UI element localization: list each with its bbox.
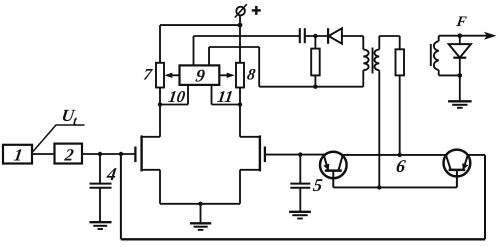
- label 10: [167, 87, 186, 106]
- lead 11 (block9 to R8 bottom): [212, 85, 241, 105]
- transistor VT5: [320, 152, 347, 188]
- node cap-diode: [313, 34, 317, 38]
- label 4: [105, 164, 118, 184]
- diode across coil: [449, 36, 471, 76]
- svg-text:11: 11: [216, 87, 234, 106]
- capacitor C5: [290, 155, 310, 211]
- wire FET4 source down: [239, 170, 241, 204]
- output coil: [434, 36, 460, 76]
- wire base link VT5-VT6: [333, 186, 457, 188]
- FET VT3 (left): [135, 135, 160, 171]
- lead 10 (block9 to R7 bottom): [160, 85, 188, 105]
- svg-text:1: 1: [13, 146, 24, 165]
- wire block1 to block2: [32, 153, 55, 155]
- svg-text:10: 10: [167, 87, 186, 106]
- wire FET4 gate to VT5: [265, 154, 325, 156]
- wire block9 top-left to coupling line: [194, 36, 300, 65]
- transformer T secondary: [375, 36, 400, 187]
- wire block9 top-right to lower rail: [209, 47, 363, 87]
- block 9: [180, 65, 220, 85]
- svg-text:6: 6: [395, 156, 408, 176]
- label Ut: [33, 106, 85, 151]
- power terminal +: [235, 4, 261, 25]
- svg-text:7: 7: [142, 67, 153, 84]
- svg-text:F: F: [455, 14, 468, 30]
- resistor R8: [236, 25, 244, 87]
- wire feedback loop: [121, 154, 485, 239]
- wire FET3 source down: [159, 170, 161, 204]
- node feedback tap: [119, 152, 123, 156]
- resistor R7: [156, 25, 164, 87]
- svg-text:4: 4: [105, 164, 118, 184]
- ground under C4: [90, 222, 112, 229]
- label 5: [312, 175, 324, 195]
- ground common source: [190, 204, 211, 230]
- node output bottom: [458, 73, 463, 78]
- arrow block9 to R7: [164, 73, 179, 78]
- label 7: [142, 67, 153, 84]
- svg-text:9: 9: [194, 66, 206, 86]
- block 2: [55, 144, 83, 165]
- capacitor (coupling): [300, 28, 328, 43]
- node common source: [198, 202, 202, 206]
- transformer core: [372, 48, 374, 74]
- node C4 tap: [98, 152, 102, 156]
- output coil core: [430, 44, 432, 66]
- ground output: [448, 75, 472, 107]
- node 6 junction: [398, 153, 402, 157]
- svg-text:5: 5: [312, 175, 324, 195]
- node shunt bottom: [313, 85, 317, 89]
- FET VT4 (right): [240, 135, 265, 171]
- ground under C5: [289, 212, 311, 219]
- svg-text:2: 2: [63, 146, 76, 165]
- node secondary-base: [377, 185, 381, 189]
- node 11 junction: [238, 102, 242, 106]
- block 1: [3, 145, 32, 165]
- node 10 junction: [158, 102, 162, 106]
- wire FET4 drain to R8: [239, 88, 241, 137]
- diode VD: [328, 28, 363, 44]
- node power: [238, 23, 243, 28]
- label 6: [395, 156, 408, 176]
- wire FET3 drain to R7: [159, 88, 161, 137]
- transistor VT6: [444, 150, 471, 188]
- node output top: [458, 33, 463, 38]
- arrow block9 to R8: [219, 73, 234, 78]
- wire VT5 collector to VT6: [342, 154, 447, 156]
- power rail top: [160, 24, 240, 26]
- label 11: [216, 87, 234, 106]
- resistor (shunt): [311, 36, 320, 87]
- capacitor C4: [90, 154, 112, 221]
- transformer T primary: [363, 36, 368, 87]
- label F: [455, 14, 468, 30]
- resistor (secondary load): [396, 36, 405, 155]
- label 8: [246, 67, 256, 84]
- wire block2 to FET gate: [82, 153, 135, 155]
- wire common source: [160, 203, 240, 205]
- svg-text:8: 8: [246, 67, 256, 84]
- node C5 tap: [298, 152, 302, 156]
- output arrow F: [460, 32, 497, 40]
